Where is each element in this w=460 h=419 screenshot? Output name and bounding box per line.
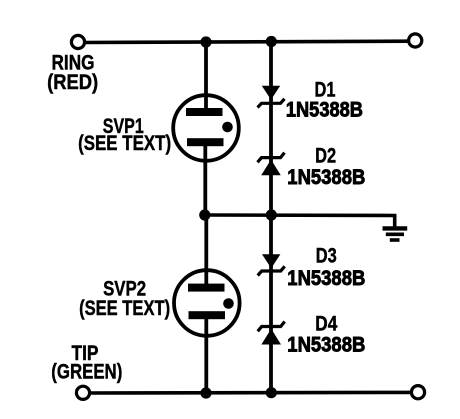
gas tube SVP2 body [174, 270, 240, 336]
terminal top right [409, 34, 422, 47]
terminal RING left [71, 35, 84, 48]
wire SVP1 bottom lead [203, 142, 207, 216]
svg-text:(SEE TEXT): (SEE TEXT) [79, 297, 170, 320]
gas tube SVP1 body [173, 95, 239, 161]
ground earth symbol [383, 228, 408, 240]
wire diode column vertical [269, 40, 273, 393]
svg-text:(RED): (RED) [47, 71, 98, 94]
wire SVP2 bottom lead [204, 318, 208, 393]
zener diode D1 (cathode down) [258, 86, 285, 108]
terminal bottom right [411, 386, 424, 399]
svg-text:1N5388B: 1N5388B [287, 166, 365, 189]
junction bottom diode column [266, 387, 277, 398]
junction middle diode column [266, 209, 277, 220]
wire SVP1 top lead [204, 40, 208, 112]
zener diode D4 (cathode up) [258, 322, 285, 345]
junction top diode column [266, 36, 277, 47]
svg-text:1N5388B: 1N5388B [286, 98, 363, 121]
wire SVP2 top lead [204, 214, 208, 288]
junction middle SVP column [199, 209, 210, 220]
junction bottom SVP column [200, 387, 211, 398]
SVP1 lower electrode [187, 138, 224, 146]
terminal TIP left [76, 386, 89, 399]
wire ground stub [393, 214, 397, 227]
svg-text:1N5388B: 1N5388B [287, 267, 365, 290]
SVP2 gas dot [223, 298, 234, 309]
SVP2 upper electrode [188, 284, 225, 292]
svg-text:1N5388B: 1N5388B [287, 333, 365, 356]
zener diode D2 (cathode up) [258, 153, 285, 176]
wire bottom horizontal (TIP bus) [90, 391, 412, 395]
svg-text:D2: D2 [315, 145, 336, 168]
svg-text:D3: D3 [316, 245, 337, 268]
SVP1 upper electrode [186, 108, 223, 116]
junction top SVP column [200, 36, 211, 47]
svg-text:(GREEN): (GREEN) [51, 361, 122, 384]
wire middle horizontal (ground bus) [204, 213, 396, 217]
svg-text:(SEE TEXT): (SEE TEXT) [78, 132, 171, 155]
svg-text:D4: D4 [315, 312, 337, 335]
zener diode D3 (cathode down) [258, 254, 285, 275]
SVP2 lower electrode [189, 311, 226, 319]
SVP1 gas dot [222, 122, 233, 133]
wire top horizontal (RING bus) [84, 41, 409, 42]
